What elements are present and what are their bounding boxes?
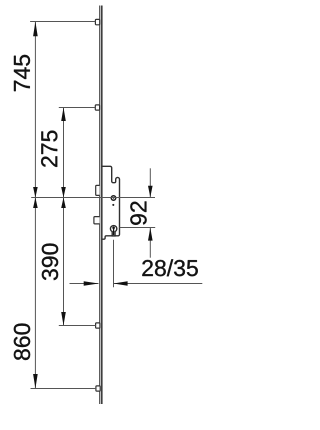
28/35 dimension line right <box>114 283 203 285</box>
label 860 <box>14 324 30 360</box>
gearbox case outline with latch finger <box>102 166 120 239</box>
spindle hub circle <box>111 196 116 201</box>
small screw dot <box>112 204 114 206</box>
arrowhead 92 bottom (up) <box>148 228 153 241</box>
euro cylinder keyhole outline <box>110 226 116 236</box>
keyhole inner slot <box>112 227 115 230</box>
label 275 <box>41 131 57 167</box>
faceplate rail right line <box>101 6 103 405</box>
275 top reference line <box>59 107 96 109</box>
label 390 <box>42 244 58 281</box>
92 dimension line top segment <box>149 168 151 197</box>
28/35 dimension line left <box>70 283 99 285</box>
faceplate rail left line <box>99 6 101 405</box>
arrowhead bowtie 275 down at hub line <box>61 187 66 198</box>
arrowhead 390 bottom (down) <box>61 312 66 326</box>
arrowhead 28/35 pointing left <box>113 281 127 286</box>
fixing lug 4 (bottom) <box>96 386 100 391</box>
92 dimension line bottom segment <box>149 228 151 258</box>
label 745 <box>14 55 30 91</box>
arrowhead bowtie 745 down at hub line <box>33 187 38 198</box>
arrowhead 92 top (down) <box>148 186 153 198</box>
dimension line 745/860 <box>34 22 36 389</box>
390 bottom reference line <box>59 325 96 327</box>
spindle hub center dot <box>113 197 115 199</box>
fixing lug 1 (top) <box>95 19 99 24</box>
fixing lug 2 <box>95 105 99 110</box>
gearbox left tab T1 <box>96 185 100 195</box>
hub axis extension line <box>31 197 155 199</box>
dimension line 275/390 <box>63 108 65 326</box>
label 92 <box>130 201 146 224</box>
gearbox left tab T2 <box>94 217 100 224</box>
arrowhead 275 top (up) <box>61 108 66 122</box>
745 top reference line <box>30 21 95 23</box>
arrowhead 860 bottom (down) <box>33 374 38 389</box>
860 bottom reference line <box>31 388 97 390</box>
cylinder axis extension line <box>120 227 156 229</box>
cylinder axis vertical extension <box>113 240 115 288</box>
arrowhead bowtie 390 up at hub line <box>61 198 66 209</box>
fixing lug 3 (390 level) <box>96 323 100 328</box>
arrowhead 745 top (up) <box>33 22 38 37</box>
label 28/35 <box>142 259 197 276</box>
arrowhead 28/35 pointing right <box>84 281 99 286</box>
arrowhead bowtie 860 up at hub line <box>33 198 38 209</box>
